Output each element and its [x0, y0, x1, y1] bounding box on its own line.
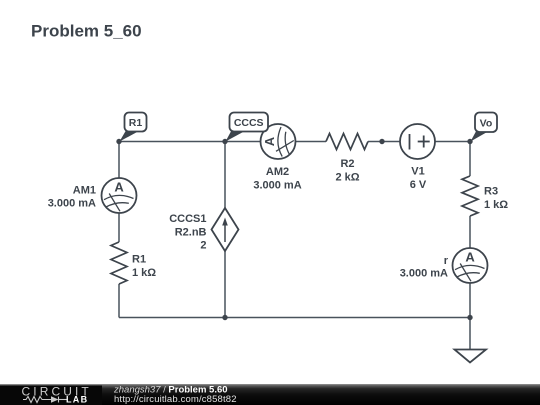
flag Vo [471, 113, 498, 142]
svg-text:R2.nB: R2.nB [175, 226, 207, 238]
node R2-V1 junction dot [379, 139, 384, 144]
wire node Vo down to R3 [469, 142, 471, 177]
flag CCCS [226, 113, 269, 142]
wire R3 to ammeter r [469, 216, 471, 248]
svg-text:R3: R3 [484, 186, 498, 198]
svg-text:R1: R1 [132, 254, 146, 266]
ammeter AM2 [261, 124, 296, 159]
svg-text:CCCS1: CCCS1 [169, 213, 206, 225]
svg-text:A: A [262, 136, 277, 146]
node CCCS junction dot [222, 139, 227, 144]
wire R1 to bottom rail [118, 284, 120, 318]
svg-text:http://circuitlab.com/c858t82: http://circuitlab.com/c858t82 [114, 394, 237, 405]
node R1 junction dot [116, 139, 121, 144]
wire ammeter r to bottom rail [469, 283, 471, 318]
svg-text:AM2: AM2 [266, 166, 289, 178]
flag R1 [120, 113, 147, 142]
wire node CCCS to AM2 [225, 141, 261, 143]
dependent source CCCS1 [212, 208, 239, 251]
svg-text:A: A [114, 180, 124, 195]
svg-text:1 kΩ: 1 kΩ [132, 267, 156, 279]
wire V1 to node Vo [435, 141, 470, 143]
ammeter r [453, 248, 488, 283]
svg-text:2 kΩ: 2 kΩ [335, 171, 359, 183]
svg-text:1 kΩ: 1 kΩ [484, 199, 508, 211]
wire bottom junction to ground [469, 318, 471, 350]
svg-text:Vo: Vo [480, 118, 493, 130]
wire CCCS1 to bottom rail [224, 251, 226, 318]
wire left branch top (node R1 to AM1) [118, 142, 120, 179]
footer logo background [0, 386, 102, 405]
svg-text:R2: R2 [340, 158, 354, 170]
wire R2 to V1 [368, 141, 400, 143]
bottom rail junction dot (CCCS branch) [222, 315, 227, 320]
resistor R2 [326, 134, 368, 150]
svg-text:3.000 mA: 3.000 mA [48, 198, 96, 210]
svg-text:A: A [465, 250, 475, 265]
resistor R3 [462, 176, 478, 216]
svg-text:Problem 5_60: Problem 5_60 [31, 22, 142, 41]
resistor R1 [111, 242, 127, 284]
ammeter AM1 [102, 178, 137, 213]
svg-text:R1: R1 [129, 117, 143, 129]
svg-text:V1: V1 [411, 166, 424, 178]
ground [455, 350, 487, 363]
svg-text:CCCS: CCCS [234, 117, 264, 129]
voltage source V1 [400, 124, 435, 159]
footer logo resistor-diode glyph [23, 397, 67, 403]
svg-text:3.000 mA: 3.000 mA [253, 179, 301, 191]
svg-text:AM1: AM1 [73, 185, 96, 197]
bottom rail junction dot (right branch) [467, 315, 472, 320]
svg-text:6 V: 6 V [410, 179, 427, 191]
svg-text:LAB: LAB [66, 395, 88, 405]
svg-text:3.000 mA: 3.000 mA [400, 267, 448, 279]
node Vo junction dot [467, 139, 472, 144]
wire top left: node R1 to node CCCS [119, 141, 225, 143]
wire bottom rail [119, 317, 470, 319]
wire AM2 to R2 [296, 141, 327, 143]
wire AM1 to R1 [118, 213, 120, 242]
wire CCCS node down to CCCS1 [224, 142, 226, 209]
svg-text:r: r [444, 255, 449, 267]
svg-text:2: 2 [200, 240, 206, 252]
